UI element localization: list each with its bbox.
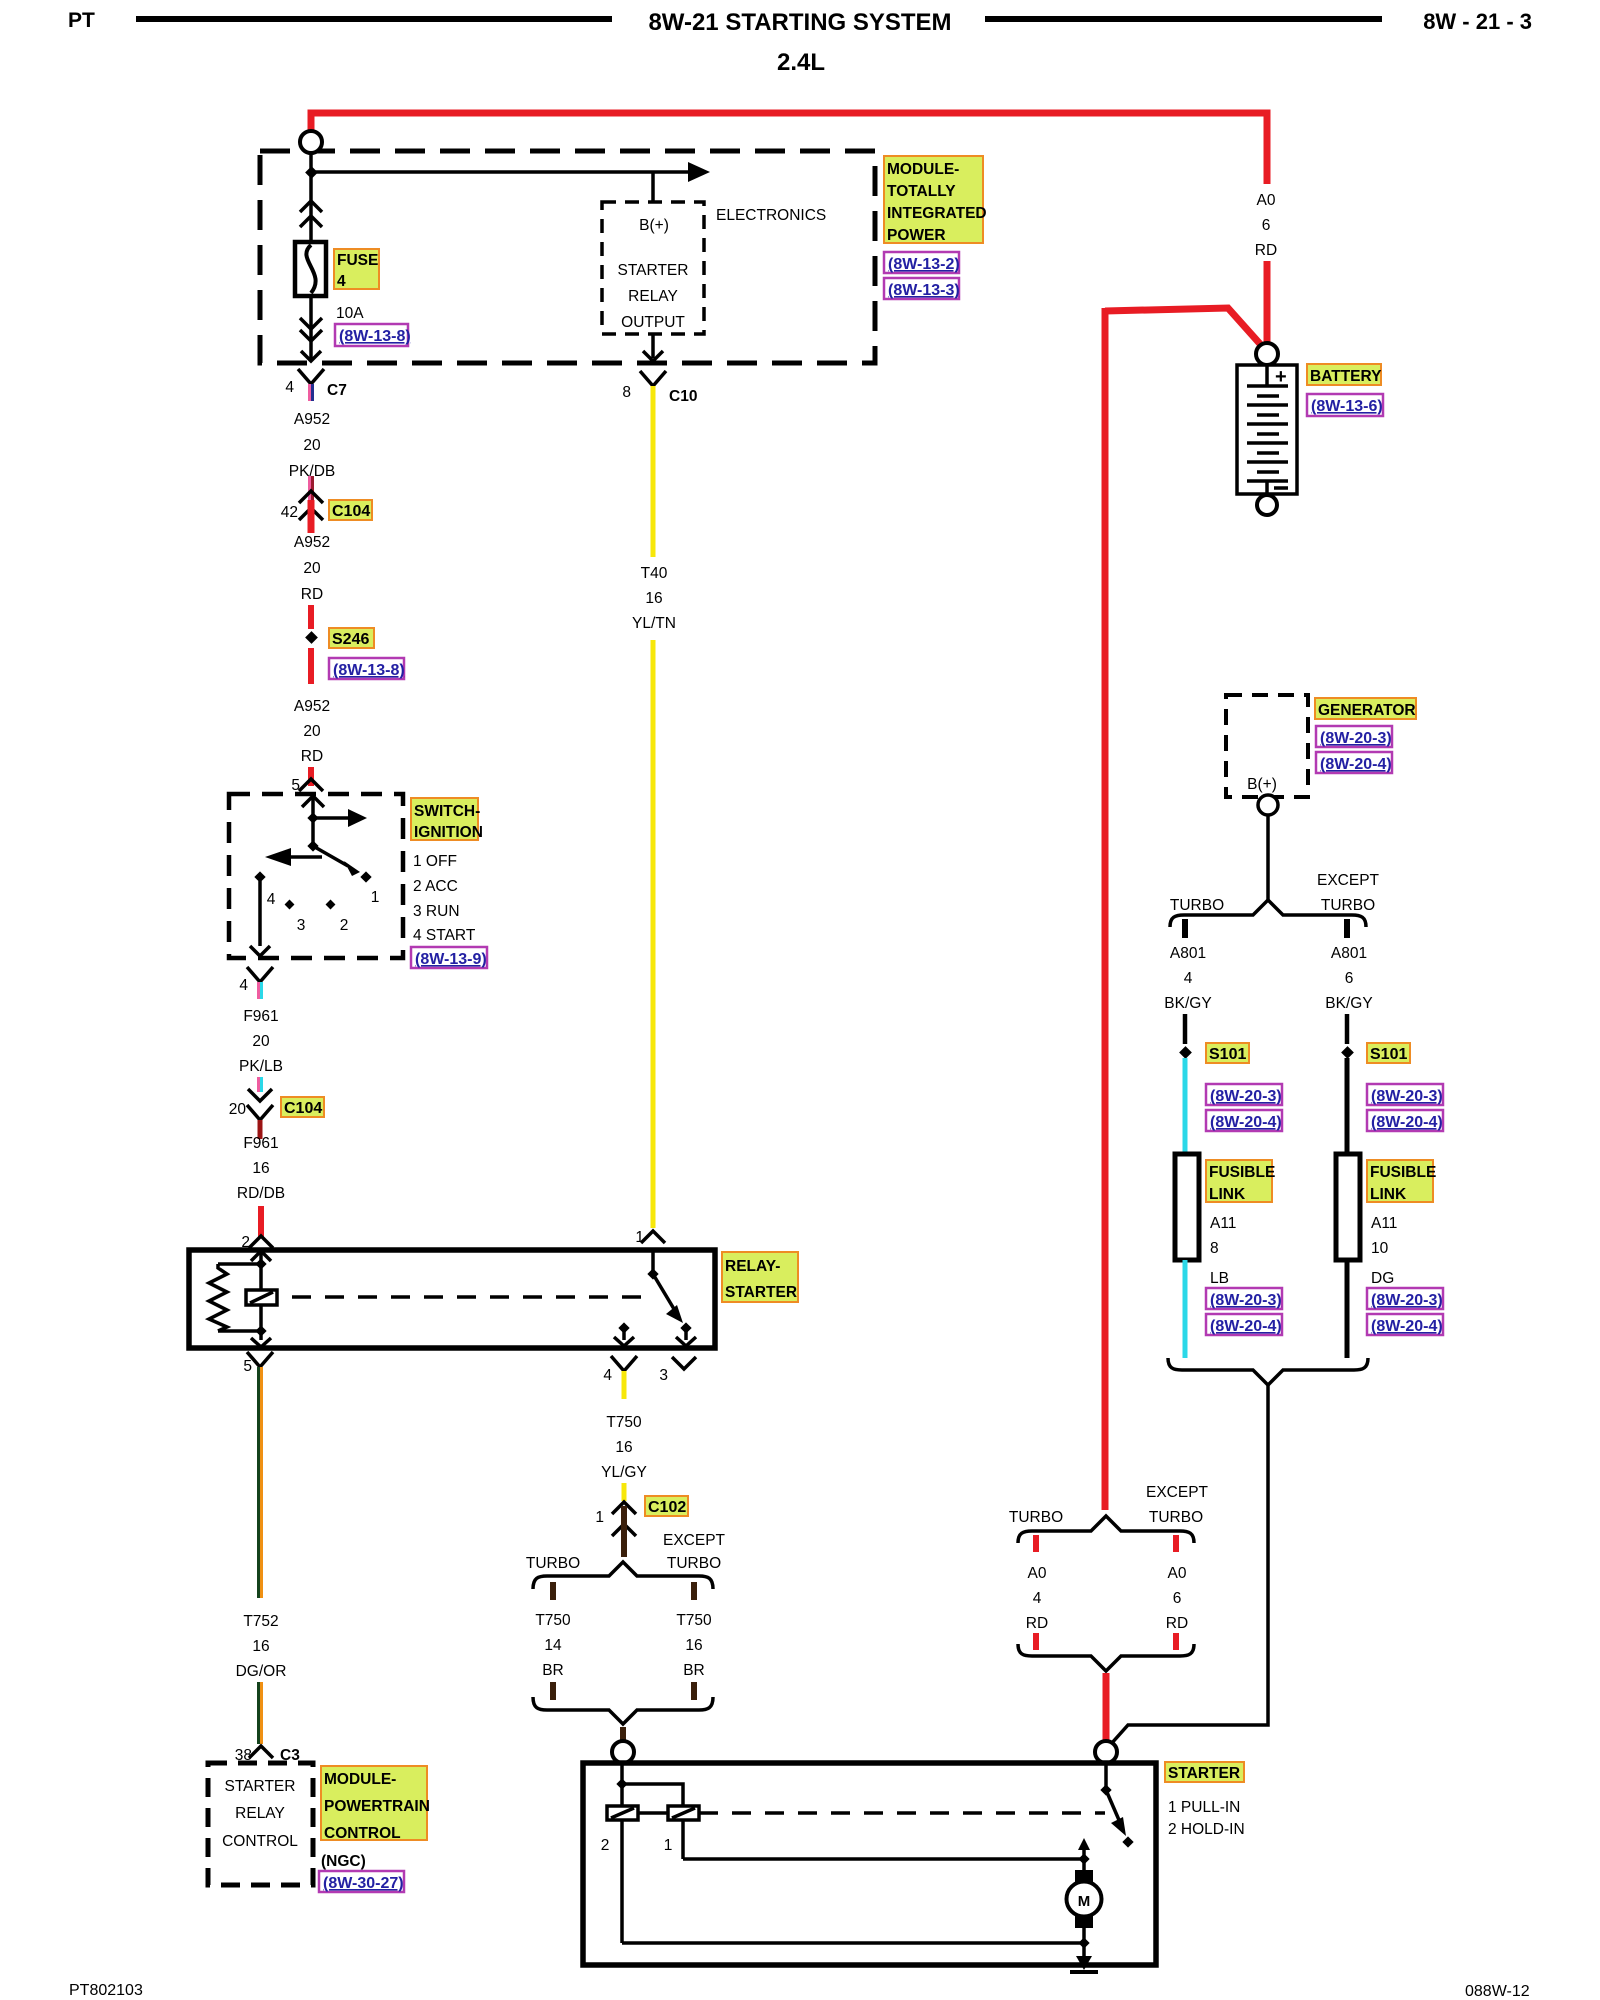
- svg-text:A952: A952: [294, 534, 330, 551]
- svg-text:POWER: POWER: [887, 227, 946, 244]
- svg-text:A0: A0: [1168, 1565, 1187, 1582]
- svg-text:S246: S246: [332, 631, 369, 648]
- svg-text:2 ACC: 2 ACC: [413, 878, 458, 895]
- svg-text:(8W-20-4): (8W-20-4): [1320, 756, 1392, 773]
- svg-text:BK/GY: BK/GY: [1164, 995, 1211, 1012]
- svg-text:T40: T40: [641, 565, 668, 582]
- svg-text:4: 4: [1184, 970, 1193, 987]
- svg-text:A0: A0: [1028, 1565, 1047, 1582]
- svg-text:1: 1: [595, 1509, 604, 1526]
- svg-text:20: 20: [303, 723, 321, 740]
- svg-text:LINK: LINK: [1370, 1186, 1407, 1203]
- svg-text:FUSIBLE: FUSIBLE: [1209, 1164, 1275, 1181]
- svg-text:(8W-20-4): (8W-20-4): [1210, 1318, 1282, 1335]
- svg-text:STARTER: STARTER: [618, 262, 689, 279]
- svg-text:TOTALLY: TOTALLY: [887, 183, 956, 200]
- svg-text:(8W-20-3): (8W-20-3): [1371, 1088, 1443, 1105]
- svg-text:PT802103: PT802103: [69, 1982, 143, 1999]
- svg-text:A952: A952: [294, 411, 330, 428]
- svg-text:DG/OR: DG/OR: [236, 1663, 287, 1680]
- svg-text:(8W-13-6): (8W-13-6): [1311, 398, 1383, 415]
- svg-text:20: 20: [229, 1101, 247, 1118]
- svg-text:16: 16: [615, 1439, 632, 1456]
- svg-text:2.4L: 2.4L: [777, 49, 825, 76]
- svg-text:(NGC): (NGC): [321, 1853, 366, 1870]
- svg-text:20: 20: [252, 1033, 270, 1050]
- svg-text:4: 4: [337, 273, 346, 290]
- svg-text:ELECTRONICS: ELECTRONICS: [716, 207, 826, 224]
- svg-text:2 HOLD-IN: 2 HOLD-IN: [1168, 1821, 1245, 1838]
- svg-text:RELAY: RELAY: [235, 1805, 285, 1822]
- svg-text:T750: T750: [535, 1612, 571, 1629]
- svg-text:INTEGRATED: INTEGRATED: [887, 205, 987, 222]
- svg-text:4: 4: [239, 977, 248, 994]
- svg-text:(8W-20-3): (8W-20-3): [1210, 1292, 1282, 1309]
- svg-text:MODULE-: MODULE-: [887, 161, 959, 178]
- svg-text:BR: BR: [542, 1662, 564, 1679]
- svg-text:3: 3: [659, 1367, 668, 1384]
- svg-text:16: 16: [252, 1160, 269, 1177]
- svg-text:4: 4: [285, 379, 294, 396]
- svg-text:PT: PT: [68, 9, 95, 32]
- svg-text:S101: S101: [1370, 1046, 1407, 1063]
- svg-text:42: 42: [281, 504, 298, 521]
- svg-text:CONTROL: CONTROL: [324, 1825, 401, 1842]
- svg-text:(8W-20-4): (8W-20-4): [1371, 1318, 1443, 1335]
- svg-text:STARTER: STARTER: [725, 1284, 797, 1301]
- svg-text:3 RUN: 3 RUN: [413, 903, 460, 920]
- svg-text:SWITCH-: SWITCH-: [414, 803, 480, 820]
- svg-text:EXCEPT: EXCEPT: [1317, 872, 1380, 889]
- svg-text:A0: A0: [1257, 192, 1276, 209]
- svg-text:CONTROL: CONTROL: [222, 1833, 298, 1850]
- svg-text:1: 1: [371, 889, 380, 906]
- svg-text:8: 8: [1210, 1240, 1219, 1257]
- svg-text:TURBO: TURBO: [1170, 897, 1224, 914]
- svg-text:T752: T752: [243, 1613, 278, 1630]
- svg-text:5: 5: [243, 1358, 252, 1375]
- svg-text:F961: F961: [243, 1135, 278, 1152]
- svg-text:14: 14: [544, 1637, 562, 1654]
- svg-text:RELAY-: RELAY-: [725, 1258, 780, 1275]
- svg-text:B(+): B(+): [1247, 776, 1277, 793]
- svg-text:RELAY: RELAY: [628, 288, 678, 305]
- svg-text:2: 2: [601, 1837, 610, 1854]
- svg-text:1 PULL-IN: 1 PULL-IN: [1168, 1799, 1240, 1816]
- svg-text:(8W-20-3): (8W-20-3): [1371, 1292, 1443, 1309]
- svg-text:16: 16: [252, 1638, 269, 1655]
- svg-text:1 OFF: 1 OFF: [413, 853, 457, 870]
- svg-text:6: 6: [1173, 1590, 1182, 1607]
- svg-text:3: 3: [297, 917, 306, 934]
- svg-text:(8W-13-8): (8W-13-8): [333, 662, 405, 679]
- svg-text:A801: A801: [1170, 945, 1206, 962]
- svg-text:EXCEPT: EXCEPT: [663, 1532, 726, 1549]
- svg-text:C10: C10: [669, 388, 697, 405]
- svg-text:(8W-13-3): (8W-13-3): [888, 282, 960, 299]
- svg-text:4: 4: [603, 1367, 612, 1384]
- svg-text:BATTERY: BATTERY: [1310, 368, 1382, 385]
- svg-text:8W-21 STARTING SYSTEM: 8W-21 STARTING SYSTEM: [648, 9, 951, 36]
- svg-text:TURBO: TURBO: [526, 1555, 580, 1572]
- svg-text:RD: RD: [1026, 1615, 1048, 1632]
- svg-text:EXCEPT: EXCEPT: [1146, 1484, 1209, 1501]
- svg-text:(8W-13-8): (8W-13-8): [339, 328, 411, 345]
- svg-text:2: 2: [340, 917, 349, 934]
- svg-text:LB: LB: [1210, 1270, 1229, 1287]
- svg-text:T750: T750: [606, 1414, 642, 1431]
- svg-text:STARTER: STARTER: [1168, 1765, 1240, 1782]
- svg-text:F961: F961: [243, 1008, 278, 1025]
- svg-text:C104: C104: [332, 503, 370, 520]
- svg-text:RD: RD: [301, 586, 323, 603]
- svg-text:TURBO: TURBO: [1009, 1509, 1063, 1526]
- svg-text:20: 20: [303, 437, 321, 454]
- svg-text:TURBO: TURBO: [1149, 1509, 1203, 1526]
- svg-text:10: 10: [1371, 1240, 1389, 1257]
- svg-text:FUSE: FUSE: [337, 252, 378, 269]
- svg-text:(8W-13-9): (8W-13-9): [415, 951, 487, 968]
- svg-text:(8W-20-3): (8W-20-3): [1320, 730, 1392, 747]
- svg-text:A11: A11: [1210, 1215, 1236, 1232]
- svg-text:OUTPUT: OUTPUT: [621, 314, 685, 331]
- svg-text:5: 5: [291, 777, 300, 794]
- svg-text:BR: BR: [683, 1662, 705, 1679]
- svg-text:POWERTRAIN: POWERTRAIN: [324, 1798, 430, 1815]
- svg-text:1: 1: [664, 1837, 673, 1854]
- svg-text:(8W-20-4): (8W-20-4): [1371, 1114, 1443, 1131]
- svg-text:A11: A11: [1371, 1215, 1397, 1232]
- svg-text:20: 20: [303, 560, 321, 577]
- svg-text:TURBO: TURBO: [1321, 897, 1375, 914]
- svg-text:MODULE-: MODULE-: [324, 1771, 396, 1788]
- svg-text:C104: C104: [284, 1100, 322, 1117]
- svg-text:6: 6: [1262, 217, 1271, 234]
- svg-text:RD: RD: [1255, 242, 1277, 259]
- svg-text:TURBO: TURBO: [667, 1555, 721, 1572]
- svg-text:A952: A952: [294, 698, 330, 715]
- svg-text:C7: C7: [327, 382, 347, 399]
- svg-text:4: 4: [1033, 1590, 1042, 1607]
- svg-text:GENERATOR: GENERATOR: [1318, 702, 1416, 719]
- svg-text:YL/GY: YL/GY: [601, 1464, 647, 1481]
- svg-text:088W-12: 088W-12: [1465, 1983, 1530, 2000]
- svg-text:6: 6: [1345, 970, 1354, 987]
- svg-text:8: 8: [622, 384, 631, 401]
- svg-text:10A: 10A: [336, 305, 364, 322]
- svg-text:YL/TN: YL/TN: [632, 615, 676, 632]
- svg-text:4: 4: [267, 891, 276, 908]
- svg-text:16: 16: [685, 1637, 702, 1654]
- svg-text:4 START: 4 START: [413, 927, 476, 944]
- svg-text:(8W-13-2): (8W-13-2): [888, 256, 960, 273]
- svg-text:B(+): B(+): [639, 217, 669, 234]
- svg-text:LINK: LINK: [1209, 1186, 1246, 1203]
- svg-text:A801: A801: [1331, 945, 1367, 962]
- svg-text:(8W-20-4): (8W-20-4): [1210, 1114, 1282, 1131]
- svg-text:S101: S101: [1209, 1046, 1246, 1063]
- svg-text:DG: DG: [1371, 1270, 1394, 1287]
- svg-text:RD: RD: [1166, 1615, 1188, 1632]
- svg-text:(8W-30-27): (8W-30-27): [323, 1875, 404, 1892]
- svg-text:(8W-20-3): (8W-20-3): [1210, 1088, 1282, 1105]
- svg-text:8W - 21 - 3: 8W - 21 - 3: [1423, 9, 1532, 34]
- svg-text:T750: T750: [676, 1612, 712, 1629]
- svg-text:BK/GY: BK/GY: [1325, 995, 1372, 1012]
- svg-text:RD/DB: RD/DB: [237, 1185, 285, 1202]
- svg-text:FUSIBLE: FUSIBLE: [1370, 1164, 1436, 1181]
- svg-text:16: 16: [645, 590, 662, 607]
- svg-text:STARTER: STARTER: [225, 1778, 296, 1795]
- svg-text:RD: RD: [301, 748, 323, 765]
- svg-text:PK/LB: PK/LB: [239, 1058, 283, 1075]
- svg-text:M: M: [1078, 1893, 1091, 1910]
- svg-text:C102: C102: [648, 1499, 686, 1516]
- svg-text:IGNITION: IGNITION: [414, 824, 483, 841]
